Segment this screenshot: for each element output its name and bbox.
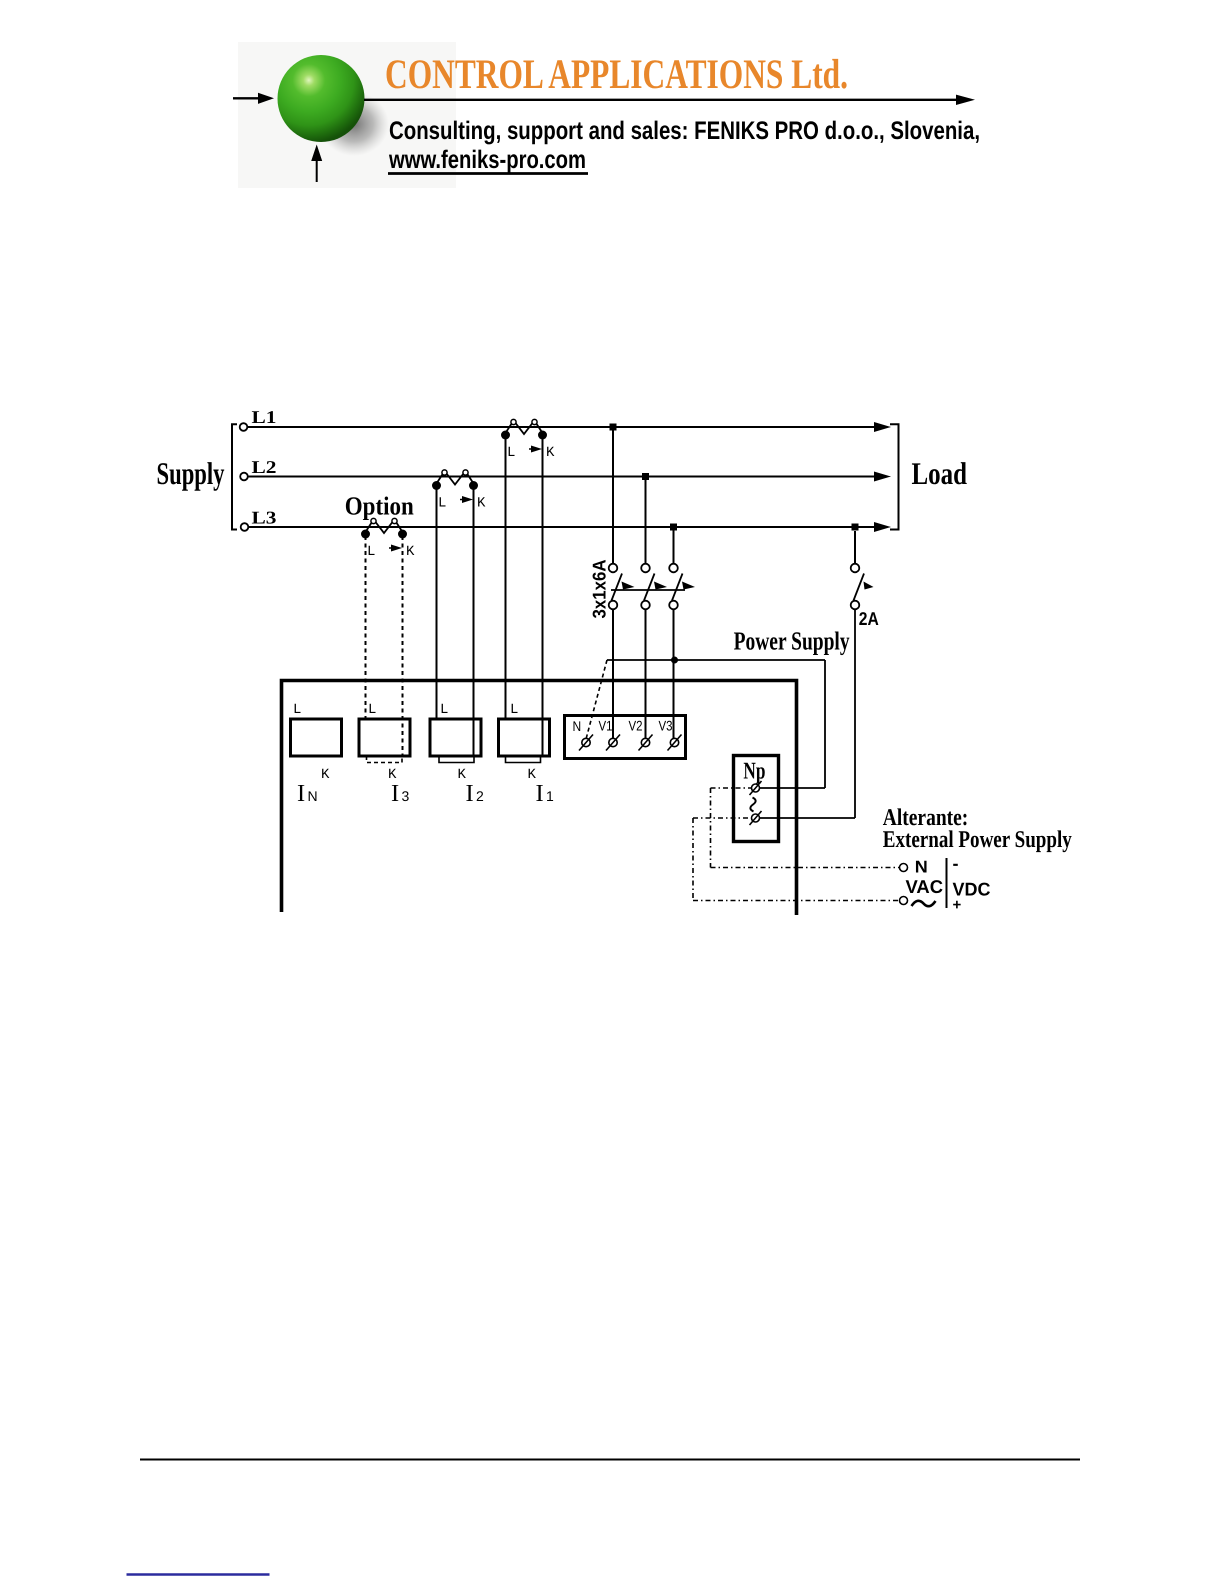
switch link bar <box>611 589 685 591</box>
label Alterante <box>883 805 969 831</box>
long horizontal arrow <box>364 95 975 105</box>
voltage terminal box <box>565 716 686 759</box>
label I2 <box>466 780 485 807</box>
wire CT3 L drop dashed <box>365 536 367 719</box>
I1 loop <box>506 756 541 763</box>
wire CT1 L drop <box>505 437 507 719</box>
label I3 <box>391 780 410 807</box>
label N external <box>915 858 928 877</box>
wire Np bottom dashed left <box>693 817 752 819</box>
IN label L <box>293 702 301 718</box>
svg-text:L: L <box>510 702 518 718</box>
label L1 <box>252 407 277 427</box>
node L1 tap <box>610 424 617 431</box>
external N terminal <box>900 864 908 872</box>
meter box outline <box>282 681 797 916</box>
label minus <box>953 854 959 874</box>
I1 label L <box>510 702 518 718</box>
svg-text:N: N <box>915 858 928 877</box>
svg-text:L: L <box>438 496 446 512</box>
company name <box>385 52 848 98</box>
svg-text:K: K <box>546 445 555 461</box>
wire L3 <box>248 522 891 532</box>
svg-text:L: L <box>507 445 515 461</box>
I3 label K <box>388 767 397 783</box>
CT3 arrow to K <box>389 545 402 552</box>
label Load <box>912 456 968 491</box>
wire power supply down <box>824 660 826 788</box>
CT2 on L2 <box>432 470 478 490</box>
Np top terminal <box>750 781 762 795</box>
wire 2A down <box>854 610 856 819</box>
svg-text:I: I <box>466 780 474 807</box>
svg-text:L: L <box>367 544 375 560</box>
terminal V3 screw <box>668 735 682 751</box>
svg-text:www.feniks-pro.com: www.feniks-pro.com <box>388 146 586 174</box>
label I1 <box>536 780 555 807</box>
I2 label K <box>458 767 467 783</box>
CT3 on L3 (option) <box>361 518 407 538</box>
node power tap V3 <box>671 657 678 664</box>
label Np <box>743 759 765 785</box>
fuse switch 2 <box>641 564 667 610</box>
svg-text:Np: Np <box>743 759 765 785</box>
terminal label V1 <box>599 718 613 734</box>
svg-text:V1: V1 <box>599 718 613 734</box>
svg-text:+: + <box>953 897 962 914</box>
svg-text:L1: L1 <box>252 407 277 427</box>
label VAC <box>906 876 944 897</box>
fuse switch 3 <box>669 564 695 610</box>
svg-text:L: L <box>440 702 448 718</box>
I3 label L <box>368 702 376 718</box>
svg-text:K: K <box>477 496 486 512</box>
wire dashed down left of Np <box>710 788 712 868</box>
node L3 tap 2A <box>852 524 859 531</box>
label VDC <box>953 879 991 900</box>
label IN <box>297 780 318 807</box>
wire CT2 L drop <box>436 487 438 719</box>
svg-text:CONTROL APPLICATIONS Ltd.: CONTROL APPLICATIONS Ltd. <box>385 52 848 98</box>
svg-text:I: I <box>391 780 399 807</box>
terminal label N <box>573 718 582 734</box>
svg-text:L: L <box>293 702 301 718</box>
load bracket <box>890 424 899 529</box>
footer rule <box>140 1459 1080 1461</box>
svg-text:3x1x6A: 3x1x6A <box>589 560 610 619</box>
svg-text:V2: V2 <box>629 718 643 734</box>
wire L1 <box>247 422 891 432</box>
label Power Supply <box>734 627 850 656</box>
svg-text:N: N <box>308 788 318 804</box>
svg-text:Option: Option <box>345 492 414 521</box>
svg-text:Load: Load <box>912 456 968 491</box>
wire power supply horizontal <box>607 659 825 661</box>
wire switch3 to V3 <box>673 610 675 739</box>
label 3x1x6A <box>589 560 610 619</box>
CT input box IN <box>291 719 342 756</box>
wire L1 tap down <box>612 427 614 564</box>
svg-text:I: I <box>297 780 305 807</box>
Np AC symbol <box>750 798 755 812</box>
logo ball <box>278 55 365 142</box>
label L2 <box>252 457 277 477</box>
logo ball shadow <box>319 92 389 156</box>
terminal V2 screw <box>639 735 653 751</box>
svg-text:K: K <box>321 767 330 783</box>
up arrow under logo <box>311 145 322 183</box>
wire Np top to power supply <box>760 787 826 789</box>
wire CT2 K drop <box>473 487 475 756</box>
svg-text:Power Supply: Power Supply <box>734 627 850 656</box>
svg-text:-: - <box>953 854 959 874</box>
supply terminal L2 <box>240 473 248 481</box>
wire dashed to N external <box>711 867 900 869</box>
CT input box I1 <box>499 719 550 756</box>
wire dashed to AC external <box>693 900 899 902</box>
svg-text:External Power Supply: External Power Supply <box>883 827 1072 853</box>
node L2 tap <box>642 473 649 480</box>
wire dashed down far left <box>692 818 694 901</box>
I2 label L <box>440 702 448 718</box>
IN label K <box>321 767 330 783</box>
wire dashed diagonal to N <box>586 660 608 741</box>
CT1 label K <box>546 445 555 461</box>
label plus <box>953 897 962 914</box>
supply terminal L1 <box>240 423 248 431</box>
node L3 tap <box>670 524 677 531</box>
svg-text:VAC: VAC <box>906 876 944 897</box>
I2 loop <box>439 756 474 763</box>
label External Power Supply <box>883 827 1072 853</box>
wire switch2 to V2 <box>645 610 647 739</box>
label AC tilde <box>912 901 936 906</box>
wire CT3 K drop dashed <box>402 536 404 756</box>
fuse switch 2A <box>851 531 874 609</box>
svg-text:2: 2 <box>476 788 484 804</box>
wire CT1 K drop <box>542 437 544 756</box>
svg-text:L: L <box>368 702 376 718</box>
footer link underline <box>127 1573 270 1576</box>
subtitle line 2 www link <box>388 146 588 174</box>
wire L2 <box>248 472 891 482</box>
label L3 <box>252 508 277 528</box>
CT input box I3 <box>359 719 410 756</box>
wire switch1 to V1 <box>612 610 614 739</box>
supply terminal L3 <box>241 523 249 531</box>
svg-text:L2: L2 <box>252 457 277 477</box>
logo background <box>238 42 456 188</box>
terminal label V3 <box>659 718 673 734</box>
I1 label K <box>528 767 537 783</box>
CT3 label K <box>406 544 415 560</box>
label 2A <box>859 608 879 629</box>
svg-text:L3: L3 <box>252 508 277 528</box>
svg-text:N: N <box>573 718 582 734</box>
svg-text:3: 3 <box>402 788 410 804</box>
wire L3 tap down <box>673 527 675 564</box>
label Option <box>345 492 414 521</box>
Np box <box>734 756 779 842</box>
left arrow into logo <box>233 93 274 104</box>
I3 loop dashed <box>367 756 403 763</box>
CT1 label L <box>507 445 515 461</box>
svg-text:V3: V3 <box>659 718 673 734</box>
CT input box I2 <box>430 719 481 756</box>
separator bar <box>946 858 948 908</box>
label Supply <box>157 456 225 491</box>
CT2 arrow to K <box>460 496 473 503</box>
CT1 on L1 <box>501 419 547 439</box>
svg-text:Supply: Supply <box>157 456 225 491</box>
CT2 label K <box>477 496 486 512</box>
terminal label V2 <box>629 718 643 734</box>
wire 2A to Np <box>760 817 855 819</box>
CT2 label L <box>438 496 446 512</box>
svg-text:1: 1 <box>546 788 554 804</box>
svg-text:2A: 2A <box>859 608 879 629</box>
CT3 label L <box>367 544 375 560</box>
wire Np top dashed left <box>711 787 752 789</box>
supply bracket <box>232 424 237 529</box>
Np bottom terminal <box>750 811 762 825</box>
terminal N screw <box>579 735 593 751</box>
CT1 arrow to K <box>529 446 542 453</box>
fuse switch 1 <box>609 564 635 610</box>
wire L2 tap down <box>645 477 647 564</box>
external AC terminal <box>900 897 908 905</box>
subtitle line 1 <box>389 117 980 145</box>
terminal V1 screw <box>606 735 620 751</box>
svg-text:K: K <box>406 544 415 560</box>
svg-text:Consulting, support and sales:: Consulting, support and sales: FENIKS PR… <box>389 117 980 145</box>
svg-text:I: I <box>536 780 544 807</box>
